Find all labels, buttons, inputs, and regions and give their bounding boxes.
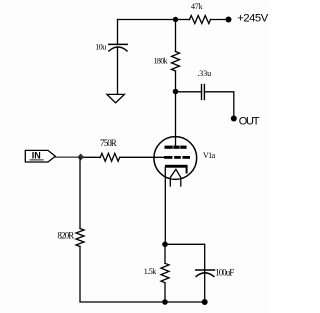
wire input junction down to 820R [79,158,81,229]
node input junction diamond [77,154,84,161]
node 100uF rail dot [202,299,208,305]
tube V1a plate (pin to 180k) [165,146,187,149]
svg-text:10u: 10u [95,42,106,51]
wire 750R to junction [84,156,100,158]
wire cathode lead down [164,168,166,245]
tube V1a heater filament [170,169,181,186]
resistor 820R [76,229,84,247]
wire cathode junction to 1.5k [164,244,166,263]
capacitor .33u plate right [203,85,205,100]
wire 47k to +245V [211,19,229,21]
svg-text:100uF: 100uF [215,267,234,277]
svg-text:1.5k: 1.5k [144,267,157,276]
wire 180k to plate node [175,71,177,92]
node plate junction dot [173,89,179,95]
terminal IN tag [25,150,55,162]
wire 820R to bottom rail [80,247,165,303]
wire bottom rail [165,301,205,303]
wire plate node to tube plate [175,92,177,147]
resistor 1.5k [161,263,169,282]
wire 10u branch down [117,20,119,45]
wire plate node to .33u [176,91,202,93]
svg-text:IN: IN [32,150,41,160]
svg-text:OUT: OUT [239,116,260,128]
svg-text:+245V: +245V [237,12,268,24]
node +245V terminal dot [226,17,232,23]
resistor 47k [190,16,211,24]
tube V1a grid (pin to 750R) [164,156,190,159]
svg-text:.33u: .33u [197,69,211,78]
wire 100uF to bottom rail [204,274,206,303]
resistor 750R [100,153,119,161]
svg-text:47k: 47k [191,2,203,11]
wire IN tip to junction [55,156,78,158]
tube V1a cathode (pin to 1.5k) [165,165,188,174]
capacitor 100uF plate curved [196,273,214,277]
capacitor 10u plate top [109,43,127,45]
svg-text:820R: 820R [57,231,74,241]
resistor 180k [172,52,180,72]
wire top rail [118,19,176,21]
svg-text:V1a: V1a [203,151,216,160]
node 1.5k rail dot [162,299,168,305]
capacitor 10u plate curved [109,47,127,51]
wire rail junction to 180k [175,20,177,52]
wire grid lead [120,156,164,158]
wire rail to 47k [176,19,190,21]
svg-text:180k: 180k [154,57,168,66]
wire 1.5k to bottom rail [164,283,166,302]
tube V1a envelope [154,137,197,180]
ground [107,94,125,103]
wire .33u to out corner [204,92,233,118]
capacitor 100uF plate top [196,269,215,271]
node B+ junction dot [173,17,178,22]
wire 10u to ground [117,48,119,95]
node OUT terminal dot [231,116,237,122]
svg-text:750R: 750R [100,138,117,148]
capacitor .33u plate left [201,85,203,100]
node cathode junction dot [162,242,168,248]
wire cathode junction to 100uF [165,244,205,272]
